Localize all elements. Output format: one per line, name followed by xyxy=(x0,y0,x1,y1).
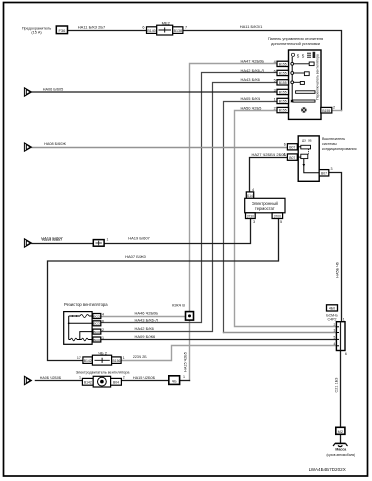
svg-text:системы: системы xyxy=(322,142,337,146)
svg-text:HA46 Ч2Б0Б: HA46 Ч2Б0Б xyxy=(135,310,159,315)
svg-text:6: 6 xyxy=(345,352,347,356)
svg-text:Масса: Масса xyxy=(335,448,346,452)
svg-text:HA06 Б/605: HA06 Б/605 xyxy=(43,87,63,91)
svg-text:2: 2 xyxy=(334,323,336,327)
svg-text:HA11 Б/КЗ 2Б7: HA11 Б/КЗ 2Б7 xyxy=(78,24,106,29)
svg-text:БСО: БСО xyxy=(94,322,101,326)
svg-text:4: 4 xyxy=(102,312,104,316)
svg-text:БСО: БСО xyxy=(94,330,101,334)
svg-text:5: 5 xyxy=(280,220,282,224)
svg-text:4: 4 xyxy=(274,60,276,64)
svg-text:6: 6 xyxy=(142,26,144,30)
svg-text:3: 3 xyxy=(274,88,276,92)
svg-text:B142: B142 xyxy=(84,381,92,385)
svg-text:B140: B140 xyxy=(147,29,155,33)
svg-text:ДЗ: ДЗ xyxy=(302,139,306,143)
svg-text:HA42 Б/К6: HA42 Б/К6 xyxy=(135,326,155,331)
svg-text:1: 1 xyxy=(107,238,109,242)
svg-text:HA09 Б/Ж6: HA09 Б/Ж6 xyxy=(135,334,157,339)
svg-text:Б14: Б14 xyxy=(247,194,253,198)
svg-text:(15 А): (15 А) xyxy=(31,31,42,35)
svg-text:(кузов автомобиля): (кузов автомобиля) xyxy=(326,453,355,457)
svg-text:LWA4Б4Б7D202X: LWA4Б4Б7D202X xyxy=(309,467,346,472)
svg-text:3: 3 xyxy=(253,220,255,224)
svg-text:3730: 3730 xyxy=(247,214,254,218)
svg-text:4: 4 xyxy=(252,188,254,192)
svg-text:Резистор вентилятора: Резистор вентилятора xyxy=(64,302,108,307)
svg-text:1: 1 xyxy=(123,356,125,360)
svg-text:B142: B142 xyxy=(84,359,92,363)
svg-text:B07: B07 xyxy=(289,146,295,150)
svg-text:B155: B155 xyxy=(322,109,330,113)
svg-text:HA42 Б/К6-Л: HA42 Б/К6-Л xyxy=(241,68,265,73)
svg-text:2: 2 xyxy=(102,328,104,332)
svg-text:С21 1БЗ: С21 1БЗ xyxy=(335,377,339,393)
svg-text:B07: B07 xyxy=(289,156,295,160)
svg-text:F36: F36 xyxy=(58,28,66,33)
svg-text:4Б0: 4Б0 xyxy=(329,307,335,311)
svg-text:B155: B155 xyxy=(279,81,287,85)
svg-text:1: 1 xyxy=(274,97,276,101)
svg-text:HA43 Б/К6-Л: HA43 Б/К6-Л xyxy=(135,318,159,323)
svg-text:дополнительной установки: дополнительной установки xyxy=(271,41,320,46)
svg-text:HA50 Ч2Б5: HA50 Ч2Б5 xyxy=(241,105,263,110)
svg-text:5: 5 xyxy=(334,336,336,340)
svg-text:HA19 Б/607: HA19 Б/607 xyxy=(128,236,150,241)
svg-text:5: 5 xyxy=(302,54,305,59)
svg-text:3: 3 xyxy=(331,167,333,171)
svg-text:3: 3 xyxy=(334,329,336,333)
svg-text:223Ч 2Б: 223Ч 2Б xyxy=(133,355,147,359)
svg-text:С4Р2: С4Р2 xyxy=(328,318,337,322)
svg-text:6: 6 xyxy=(274,69,276,73)
svg-text:Переключатель вентилятора: Переключатель вентилятора xyxy=(316,54,320,100)
svg-text:5: 5 xyxy=(297,54,300,59)
svg-text:HA15 Ч2Б0Б: HA15 Ч2Б0Б xyxy=(133,376,156,380)
svg-text:B04: B04 xyxy=(113,381,119,385)
svg-text:кондиционирования: кондиционирования xyxy=(322,147,356,151)
svg-text:B155: B155 xyxy=(279,109,287,113)
svg-text:B155: B155 xyxy=(279,62,287,66)
svg-text:2: 2 xyxy=(333,105,335,109)
svg-text:B155: B155 xyxy=(279,72,287,76)
svg-text:B155: B155 xyxy=(279,100,287,104)
svg-text:HA11 Б/КЗ/1: HA11 Б/КЗ/1 xyxy=(240,24,263,29)
svg-text:5: 5 xyxy=(274,79,276,83)
svg-text:КЗКЧ В: КЗКЧ В xyxy=(172,304,185,308)
svg-text:HA27 Ч2ББЧ 2Б0Б: HA27 Ч2ББЧ 2Б0Б xyxy=(252,152,287,157)
svg-text:ЧБ: ЧБ xyxy=(172,379,177,383)
svg-text:B155: B155 xyxy=(279,91,287,95)
svg-text:HA43 Б/К6: HA43 Б/К6 xyxy=(241,77,261,82)
svg-text:термостат: термостат xyxy=(255,206,275,211)
svg-text:БСО: БСО xyxy=(94,338,101,342)
svg-text:17: 17 xyxy=(77,356,81,360)
svg-text:2: 2 xyxy=(274,106,276,110)
svg-text:HA5Б Ч6: HA5Б Ч6 xyxy=(336,262,340,278)
svg-text:4: 4 xyxy=(334,342,336,346)
svg-text:HA0Б Ч2Б0Б: HA0Б Ч2Б0Б xyxy=(40,376,62,380)
svg-text:7: 7 xyxy=(185,26,187,30)
svg-text:B138: B138 xyxy=(174,29,182,33)
svg-text:1: 1 xyxy=(343,318,345,322)
svg-text:Выключатель: Выключатель xyxy=(322,137,345,141)
svg-text:1: 1 xyxy=(183,375,185,379)
svg-text:6: 6 xyxy=(102,320,104,324)
svg-text:6: 6 xyxy=(284,142,286,146)
svg-text:HA19 Б/607: HA19 Б/607 xyxy=(41,236,63,241)
svg-text:HA15 Ч2Б5: HA15 Ч2Б5 xyxy=(183,352,187,372)
svg-text:HA47 Ч2Б0Б: HA47 Ч2Б0Б xyxy=(241,59,265,64)
svg-text:B156: B156 xyxy=(112,359,120,363)
svg-text:3700: 3700 xyxy=(274,214,281,218)
svg-text:1: 1 xyxy=(102,336,104,340)
svg-text:HA05 Б/КЧ: HA05 Б/КЧ xyxy=(241,96,261,101)
svg-text:1: 1 xyxy=(79,376,81,380)
svg-text:0Б: 0Б xyxy=(308,139,312,143)
svg-text:HA08 Б/60Ж: HA08 Б/60Ж xyxy=(44,142,66,146)
svg-text:М2: М2 xyxy=(338,430,343,434)
svg-text:B07: B07 xyxy=(321,172,327,176)
svg-text:HA07 Б/Ж0: HA07 Б/Ж0 xyxy=(125,254,147,259)
svg-text:БСО: БСО xyxy=(94,314,101,318)
svg-text:2: 2 xyxy=(123,376,125,380)
svg-text:Электродвигатель вентилятора: Электродвигатель вентилятора xyxy=(76,371,131,375)
